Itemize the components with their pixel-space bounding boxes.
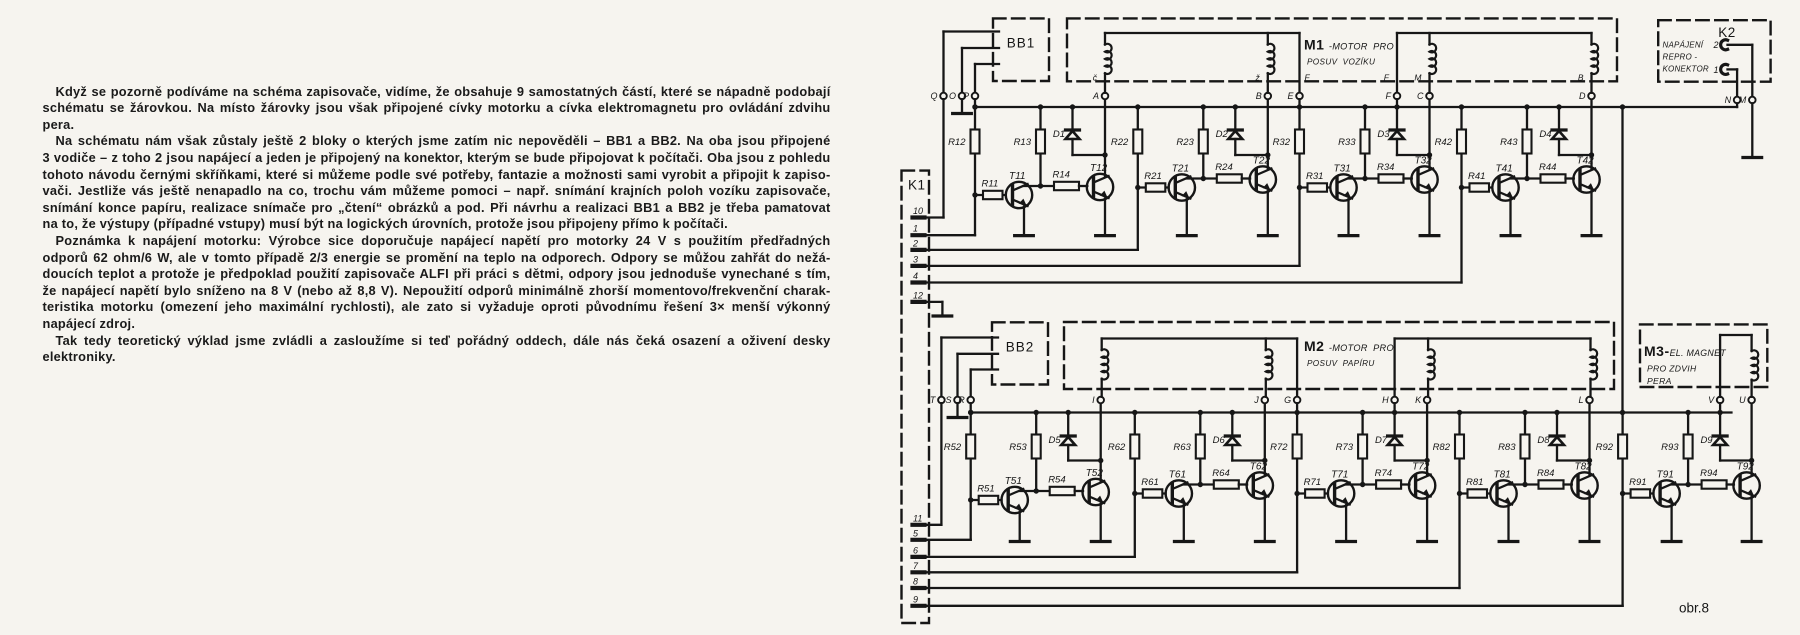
resistor R53 <box>1032 435 1041 459</box>
resistor R74 <box>1376 480 1401 488</box>
junction R53 bottom <box>1034 488 1039 493</box>
junction D5/rail <box>1066 410 1071 415</box>
connector K1 pin 4 <box>913 271 925 283</box>
junction D7/rail <box>1392 410 1397 415</box>
junction rail link bottom <box>1620 410 1625 415</box>
resistor R52 <box>966 435 975 459</box>
wire R12 column <box>974 107 976 195</box>
junction R22/rail <box>1135 104 1140 109</box>
wire D5 to collector h <box>1068 459 1101 461</box>
wire coil7 top lead <box>1427 339 1429 351</box>
wire T61 emitter <box>1183 505 1185 541</box>
transistor T52 <box>1083 479 1109 505</box>
block M3 box <box>1640 324 1767 387</box>
wire P to BB1 <box>975 63 999 65</box>
wire D8 to collector h <box>1557 459 1590 461</box>
wire T82 collector column <box>1588 400 1590 475</box>
wire R22 column <box>1137 107 1139 188</box>
svg-text:M: M <box>1739 95 1747 105</box>
wire O down to ground <box>961 99 963 112</box>
junction R82/rail <box>1457 410 1462 415</box>
svg-text:J: J <box>1253 395 1259 405</box>
svg-text:R23: R23 <box>1176 137 1194 148</box>
connector K1 pin 9 <box>913 594 925 606</box>
wire to T31 base <box>1300 186 1331 188</box>
wire T21 collector to R24 <box>1187 177 1217 179</box>
node V <box>1717 397 1724 404</box>
node I <box>1097 397 1104 404</box>
wire T92 collector column to U <box>1750 403 1752 474</box>
wire T32 collector column <box>1428 96 1430 169</box>
diode D1 <box>1066 128 1080 131</box>
svg-text:Q: Q <box>930 91 937 101</box>
resistor R24 <box>1217 174 1242 182</box>
wire R13 column <box>1039 107 1041 186</box>
wire T81 collector to R84 <box>1509 483 1539 485</box>
ground T72 <box>1418 540 1437 543</box>
wire D4 to collector h <box>1559 154 1592 156</box>
transistor T91 <box>1653 480 1679 506</box>
wire M3 coil top <box>1720 334 1752 336</box>
svg-text:R73: R73 <box>1336 442 1354 453</box>
resistor R12 <box>971 130 980 154</box>
wire E to rail <box>1298 99 1300 107</box>
transistor T72 <box>1409 472 1435 498</box>
svg-text:R63: R63 <box>1173 442 1191 453</box>
wire R53 column <box>1035 413 1037 492</box>
svg-text:B: B <box>1578 73 1584 83</box>
resistor R11 <box>983 191 1003 199</box>
wire to T41 base <box>1462 186 1493 188</box>
junction R93 bottom <box>1685 482 1690 487</box>
resistor R62 <box>1130 435 1139 459</box>
wire D2 anode... cathode to rail <box>1234 107 1236 130</box>
wire R23 column <box>1202 107 1204 179</box>
wire R72 column <box>1296 413 1298 494</box>
wire M2 winding2 common to node H <box>1393 339 1395 397</box>
node R82/R81 junction <box>1457 491 1462 496</box>
wire pin1 down to N <box>1736 69 1738 96</box>
wire coil2 top lead <box>1267 33 1269 45</box>
junction V/rail <box>1717 410 1722 415</box>
wire R52 column <box>970 413 972 501</box>
junction R63 bottom <box>1198 482 1203 487</box>
node R52/R51 junction <box>968 497 973 502</box>
svg-text:R: R <box>958 395 965 405</box>
svg-text:F: F <box>1384 73 1390 83</box>
svg-text:U: U <box>1739 395 1746 405</box>
transistor T11 <box>1006 182 1032 208</box>
svg-text:R13: R13 <box>1014 137 1032 148</box>
svg-text:6: 6 <box>913 545 918 555</box>
svg-text:D4: D4 <box>1539 129 1551 140</box>
svg-text:R21: R21 <box>1144 171 1161 182</box>
svg-text:G: G <box>1284 395 1291 405</box>
wire T72 collector column <box>1426 400 1428 475</box>
svg-text:M3-EL. MAGNET: M3-EL. MAGNET <box>1644 343 1726 359</box>
svg-text:1: 1 <box>1713 65 1718 75</box>
wire T71 emitter <box>1345 505 1347 541</box>
resistor R14 <box>1054 182 1079 190</box>
junction diode D1 / collector <box>1102 152 1107 157</box>
svg-text:R34: R34 <box>1377 162 1394 173</box>
svg-text:R43: R43 <box>1500 137 1518 148</box>
svg-text:R53: R53 <box>1009 442 1027 453</box>
diode D5 <box>1061 434 1075 437</box>
svg-text:BB2: BB2 <box>1006 340 1035 355</box>
resistor R33 <box>1361 130 1370 154</box>
wire Q column <box>942 32 944 93</box>
svg-text:R44: R44 <box>1539 162 1556 173</box>
connector K1 pin 3 <box>913 254 925 266</box>
wire to T81 base <box>1460 492 1491 494</box>
wire T11 emitter <box>1023 207 1025 236</box>
resistor R44 <box>1541 174 1566 182</box>
ground S <box>948 416 967 419</box>
wire R24 to T22 base <box>1242 177 1250 179</box>
wire coil4 top lead <box>1590 33 1592 45</box>
wire pin11 to T <box>927 524 942 526</box>
wire M to ground <box>1751 103 1753 156</box>
wire R42 column <box>1460 107 1462 188</box>
node H <box>1391 397 1398 404</box>
junction R62/rail <box>1132 410 1137 415</box>
resistor R31 <box>1308 183 1328 191</box>
wire D1 anode... cathode to rail <box>1071 107 1073 130</box>
svg-text:R31: R31 <box>1306 171 1323 182</box>
node P <box>972 93 979 100</box>
ground T82 <box>1580 540 1599 543</box>
wire T column <box>940 338 942 397</box>
svg-text:R52: R52 <box>944 442 962 453</box>
block M2 box <box>1064 322 1614 389</box>
wire D7 anode... cathode to rail <box>1393 413 1395 437</box>
junction D1/rail <box>1070 104 1075 109</box>
resistor R54 <box>1050 487 1075 495</box>
svg-text:POSUV PAPÍRU: POSUV PAPÍRU <box>1307 358 1375 368</box>
transistor T71 <box>1328 480 1354 506</box>
ground T71 <box>1337 540 1356 543</box>
svg-text:REPRO -: REPRO - <box>1663 53 1698 62</box>
wire coil8 to node L <box>1589 379 1591 397</box>
wire S column <box>956 354 958 397</box>
wire to T21 base <box>1138 186 1169 188</box>
wire T71 collector to R74 <box>1346 483 1376 485</box>
connector K1 pin 10 <box>913 206 925 218</box>
node K <box>1424 397 1431 404</box>
svg-text:11: 11 <box>913 513 922 523</box>
resistor R23 <box>1199 130 1208 154</box>
svg-text:T: T <box>930 395 937 405</box>
svg-text:R92: R92 <box>1596 442 1614 453</box>
svg-text:T31: T31 <box>1334 163 1351 174</box>
resistor R61 <box>1143 489 1163 497</box>
resistor R41 <box>1470 183 1490 191</box>
resistor R42 <box>1457 130 1466 154</box>
svg-text:R51: R51 <box>977 484 994 495</box>
wire R84 to T82 base <box>1564 483 1572 485</box>
wire M2 winding1 top <box>1102 337 1297 339</box>
junction D4/rail <box>1556 104 1561 109</box>
wire pin3 <box>927 265 1300 267</box>
resistor R34 <box>1379 174 1404 182</box>
wire to T71 base <box>1297 492 1328 494</box>
svg-text:KONEKTOR: KONEKTOR <box>1663 65 1709 74</box>
connector K1 pin 2 <box>912 238 925 250</box>
node R22/R21 junction <box>1135 185 1140 190</box>
svg-text:4: 4 <box>913 271 918 281</box>
svg-text:BB1: BB1 <box>1007 36 1036 51</box>
junction R73/rail <box>1360 410 1365 415</box>
resistor R94 <box>1702 480 1727 488</box>
wire D3 to collector <box>1396 139 1398 155</box>
svg-text:R72: R72 <box>1270 442 1288 453</box>
svg-text:R83: R83 <box>1498 442 1516 453</box>
svg-text:V: V <box>1708 395 1715 405</box>
wire D2 to collector <box>1234 139 1236 155</box>
node C <box>1426 93 1433 100</box>
svg-text:E: E <box>1287 91 1294 101</box>
svg-text:F: F <box>1305 73 1311 83</box>
block BB1 box <box>993 18 1049 81</box>
resistor R51 <box>979 496 999 504</box>
svg-text:1: 1 <box>913 224 918 234</box>
svg-text:A: A <box>1092 91 1099 101</box>
svg-text:C: C <box>1417 91 1424 101</box>
resistor R73 <box>1358 435 1367 459</box>
node O <box>959 93 966 100</box>
ground M <box>1743 156 1762 159</box>
wire D4 to collector <box>1558 139 1560 155</box>
connector K1 pin 1 <box>913 224 925 236</box>
ground T81 <box>1499 540 1518 543</box>
wire D3 to collector h <box>1397 154 1430 156</box>
node U <box>1748 397 1755 404</box>
svg-text:D9: D9 <box>1700 435 1713 446</box>
wire R32 column <box>1298 107 1300 188</box>
wire pin2 up <box>1137 188 1139 250</box>
wire to T51 base <box>971 499 1002 501</box>
svg-text:F: F <box>1386 91 1392 101</box>
ground T32 <box>1420 234 1439 237</box>
transistor T82 <box>1571 472 1597 498</box>
connector K2 contact 1 <box>1721 64 1728 74</box>
wire T31 collector to R34 <box>1349 177 1379 179</box>
wire T92 emitter <box>1750 497 1752 541</box>
node R62/R61 junction <box>1132 491 1137 496</box>
wire T12 collector column <box>1104 96 1106 176</box>
svg-text:R14: R14 <box>1053 170 1070 181</box>
svg-text:PRO ZDVIH: PRO ZDVIH <box>1647 364 1697 374</box>
connector K2 box <box>1658 20 1770 81</box>
diode D4 <box>1552 128 1566 131</box>
wire R83 column <box>1524 413 1526 485</box>
wire R34 to T32 base <box>1404 177 1412 179</box>
node R72/R71 junction <box>1294 491 1299 496</box>
wire R73 column <box>1361 413 1363 485</box>
svg-text:5: 5 <box>913 528 919 538</box>
junction R73 bottom <box>1360 482 1365 487</box>
junction diode D4 / collector <box>1589 152 1594 157</box>
inductor M3 electromagnet coil <box>1752 350 1759 380</box>
wire R93 column <box>1687 413 1689 485</box>
junction R72/rail <box>1294 410 1299 415</box>
junction D6/rail <box>1230 410 1235 415</box>
wire D8 to collector <box>1556 445 1558 461</box>
resistor R82 <box>1455 435 1464 459</box>
wire R62 column <box>1134 413 1136 494</box>
svg-text:S: S <box>945 395 951 405</box>
wire coil2 to node B <box>1267 73 1269 93</box>
wire T52 emitter <box>1100 504 1102 542</box>
junction R12/rail <box>972 104 977 109</box>
wire T41 emitter <box>1509 199 1511 235</box>
svg-text:M: M <box>1414 73 1422 83</box>
wire to T91 base <box>1623 492 1654 494</box>
wire T12 emitter <box>1104 199 1106 236</box>
wire T22 collector column <box>1267 96 1269 169</box>
junction rail link top <box>1620 104 1625 109</box>
connector K1 pin 6 <box>913 545 925 557</box>
resistor R72 <box>1293 435 1302 459</box>
svg-text:12: 12 <box>913 290 923 300</box>
svg-text:M2 -MOTOR PRO: M2 -MOTOR PRO <box>1304 338 1394 354</box>
svg-text:2: 2 <box>1712 40 1718 50</box>
wire T42 collector column <box>1590 96 1592 169</box>
wire R92 column <box>1621 413 1623 494</box>
wire winding1 common to node E <box>1298 33 1300 93</box>
wire D7 to collector <box>1393 445 1395 461</box>
wire pin6 up <box>1134 494 1136 557</box>
wire G to rail <box>1296 403 1298 412</box>
wire T62 collector column <box>1264 400 1266 475</box>
transistor T61 <box>1166 480 1192 506</box>
transistor T21 <box>1169 174 1195 200</box>
node R12/R11 junction <box>972 192 977 197</box>
wire R64 to T62 base <box>1239 483 1247 485</box>
resistor R93 <box>1684 435 1693 459</box>
ground T11 <box>1015 234 1034 237</box>
resistor R13 <box>1036 130 1045 154</box>
svg-text:K1: K1 <box>908 178 926 193</box>
svg-text:NAPÁJENÍ: NAPÁJENÍ <box>1663 41 1705 50</box>
wire Q down to pin10 <box>942 99 944 217</box>
wire T51 emitter <box>1019 512 1021 542</box>
junction R63/rail <box>1198 410 1203 415</box>
node R42/R41 junction <box>1459 185 1464 190</box>
wire pin1 up <box>974 195 976 235</box>
resistor R64 <box>1214 480 1239 488</box>
wire D3 anode... cathode to rail <box>1396 107 1398 130</box>
svg-text:R93: R93 <box>1661 442 1679 453</box>
node A <box>1102 93 1109 100</box>
resistor R21 <box>1146 183 1166 191</box>
wire S down to ground <box>956 403 958 416</box>
junction R52/rail <box>968 410 973 415</box>
junction diode D2 / collector <box>1265 152 1270 157</box>
node F <box>1394 93 1401 100</box>
wire pin5 up <box>970 500 972 540</box>
transistor T41 <box>1492 174 1518 200</box>
wire R to BB2 <box>971 368 998 370</box>
resistor R22 <box>1133 130 1142 154</box>
wire K2 pin1 <box>1728 68 1738 70</box>
junction diode D6 / collector <box>1262 458 1267 463</box>
diode D8 <box>1550 434 1564 437</box>
svg-text:3: 3 <box>913 254 918 264</box>
wire V to rail <box>1719 403 1721 412</box>
junction R83 bottom <box>1522 482 1527 487</box>
wire pin6 <box>927 556 1135 558</box>
wire pin2 <box>927 249 1138 251</box>
wire D8 anode... cathode to rail <box>1556 413 1558 437</box>
svg-text:POSUV VOZÍKU: POSUV VOZÍKU <box>1307 57 1375 67</box>
junction diode D7 / collector <box>1424 458 1429 463</box>
svg-text:10: 10 <box>913 206 923 216</box>
wire T91 emitter <box>1670 505 1672 541</box>
wire coil4 to node D <box>1590 73 1592 93</box>
svg-text:D3: D3 <box>1377 129 1390 140</box>
transistor T12 <box>1087 174 1113 200</box>
svg-text:T21: T21 <box>1172 163 1189 174</box>
wire T42 emitter <box>1590 191 1592 235</box>
svg-text:T81: T81 <box>1494 469 1511 480</box>
junction R43/rail <box>1524 104 1529 109</box>
wire coil5 top lead <box>1101 339 1103 351</box>
svg-text:D: D <box>1579 91 1586 101</box>
junction R13/rail <box>1038 104 1043 109</box>
inductor M2 coil3 (phase K) <box>1428 349 1435 379</box>
wire F to rail <box>1396 99 1398 107</box>
svg-text:T41: T41 <box>1496 163 1513 174</box>
wire pin9 <box>927 605 1623 607</box>
wire pin9 up <box>1621 494 1623 606</box>
wire R74 to T72 base <box>1401 483 1409 485</box>
svg-text:L: L <box>1578 395 1583 405</box>
node G <box>1294 397 1301 404</box>
ground T42 <box>1582 234 1601 237</box>
svg-text:R24: R24 <box>1215 162 1232 173</box>
connector K1 pin 11 <box>913 513 925 525</box>
svg-text:R82: R82 <box>1433 442 1451 453</box>
svg-text:M1 -MOTOR PRO: M1 -MOTOR PRO <box>1304 37 1394 53</box>
svg-text:R91: R91 <box>1629 477 1646 488</box>
transistor T32 <box>1411 166 1437 192</box>
wire pin4 up <box>1460 188 1462 283</box>
junction R83/rail <box>1522 410 1527 415</box>
svg-text:R81: R81 <box>1466 477 1483 488</box>
node N <box>1734 97 1741 104</box>
diode D9 <box>1713 434 1727 437</box>
wire R14 to T12 base <box>1079 185 1087 187</box>
svg-text:D5: D5 <box>1049 435 1062 446</box>
wire pin1 <box>927 234 976 236</box>
transistor T92 <box>1733 472 1759 498</box>
resistor R63 <box>1196 435 1205 459</box>
resistor R32 <box>1295 130 1304 154</box>
node R <box>967 397 974 404</box>
svg-text:T71: T71 <box>1331 469 1348 480</box>
inductor M2 coil2 (phase J) <box>1266 349 1273 379</box>
wire pin12 down <box>941 302 943 315</box>
svg-text:K2: K2 <box>1718 25 1736 40</box>
wire D2 to collector h <box>1235 154 1268 156</box>
wire D4 anode... cathode to rail <box>1558 107 1560 130</box>
svg-text:R22: R22 <box>1111 137 1129 148</box>
wire M2 winding1 common to node G <box>1296 339 1298 397</box>
junction R13 bottom <box>1038 183 1043 188</box>
svg-text:8: 8 <box>913 577 918 587</box>
